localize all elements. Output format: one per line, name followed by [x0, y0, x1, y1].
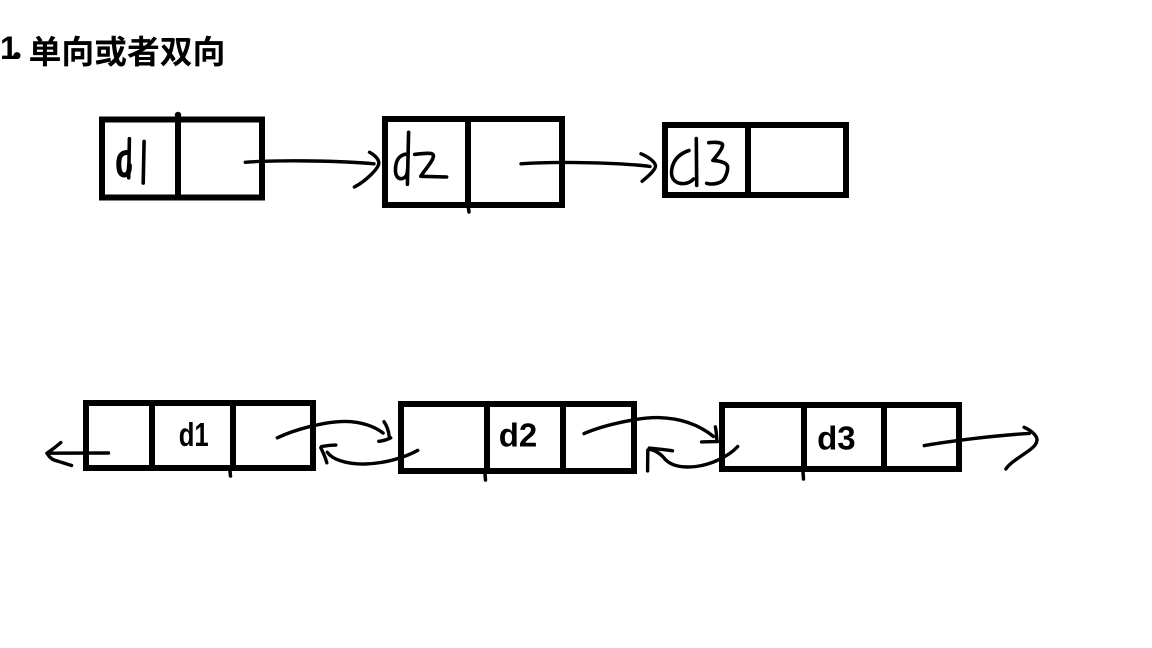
svg-text:1: 1	[0, 30, 18, 66]
svg-text:d3: d3	[817, 419, 856, 456]
svg-text:d1: d1	[179, 416, 209, 453]
svg-text:d2: d2	[499, 417, 538, 454]
